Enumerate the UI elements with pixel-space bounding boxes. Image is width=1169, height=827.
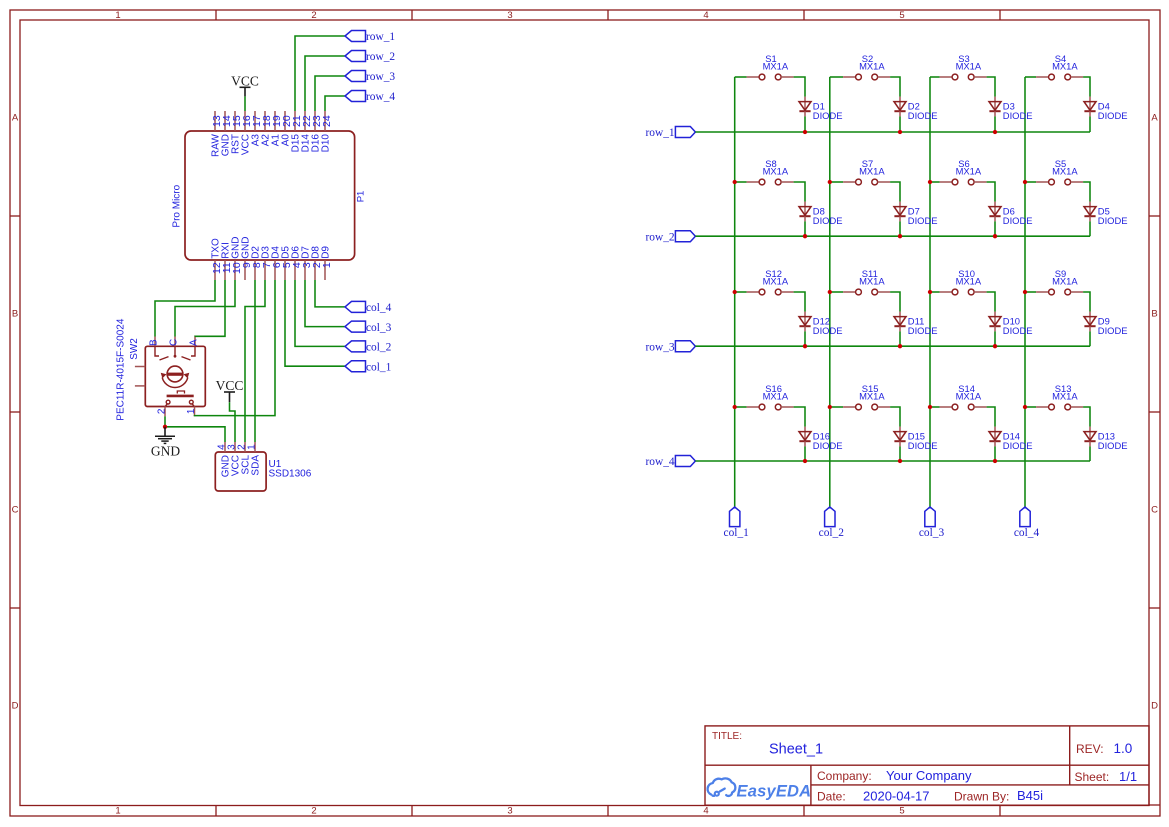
wire pin24 to row_4 flag <box>325 96 345 111</box>
wire VCC to pin16 <box>244 96 246 111</box>
svg-text:col_4: col_4 <box>1014 527 1040 539</box>
wire pin D8 to col_4 flag <box>315 280 345 307</box>
svg-text:DIODE: DIODE <box>1098 440 1128 451</box>
svg-text:MX1A: MX1A <box>763 60 789 71</box>
svg-text:Sheet:: Sheet: <box>1075 770 1110 784</box>
U1 pin 3 (VCC) <box>226 442 241 476</box>
diode D16 <box>799 427 843 451</box>
svg-text:DIODE: DIODE <box>908 110 938 121</box>
wire S5 to D5 <box>1083 182 1090 202</box>
SW2 top pin B <box>149 337 160 347</box>
svg-text:DIODE: DIODE <box>908 215 938 226</box>
P1 bottom pin 6 (D4) <box>270 246 283 280</box>
wire S13 to D13 <box>1083 407 1090 427</box>
svg-text:DIODE: DIODE <box>1098 325 1128 336</box>
wire S10 to D10 <box>987 292 995 312</box>
diode D2 <box>894 97 938 121</box>
wire col_1 vertical bus <box>734 77 736 507</box>
svg-text:2: 2 <box>311 10 316 21</box>
P1 bottom pin 2 (D8) <box>310 246 323 280</box>
wire D10 to row_3 <box>994 331 996 346</box>
junction D16/row_4 <box>803 459 807 463</box>
svg-text:DIODE: DIODE <box>813 110 843 121</box>
svg-text:col_1: col_1 <box>366 361 392 373</box>
svg-text:B: B <box>1151 309 1157 320</box>
svg-text:MX1A: MX1A <box>859 165 885 176</box>
svg-text:MX1A: MX1A <box>859 390 885 401</box>
P1 top pin 15 (RST) <box>230 111 243 154</box>
diode D10 <box>989 312 1033 336</box>
junction col_1/S12 <box>733 290 737 294</box>
junction D10/row_3 <box>993 344 997 348</box>
rotary encoder SW2 body <box>115 318 205 421</box>
diode D9 <box>1084 312 1128 336</box>
wire pin22 to row_2 flag <box>305 56 345 111</box>
junction D11/row_3 <box>898 344 902 348</box>
svg-text:row_2: row_2 <box>366 51 395 63</box>
P1 top pin 16 (VCC) <box>240 111 253 155</box>
svg-text:3: 3 <box>507 10 512 21</box>
svg-text:C: C <box>169 339 180 346</box>
wire D9 to row_3 <box>1089 331 1091 346</box>
diode D8 <box>799 202 843 226</box>
svg-text:A: A <box>1151 113 1158 124</box>
svg-text:MX1A: MX1A <box>859 60 885 71</box>
U1 pin 1 (SDA) <box>246 442 261 476</box>
P1 top pin 20 (A0) <box>280 111 293 146</box>
P1 bottom pin 1 (D9) <box>320 246 333 280</box>
netflag row_3 (top) <box>345 71 395 84</box>
svg-text:1: 1 <box>115 10 120 21</box>
svg-text:row_2: row_2 <box>645 231 674 243</box>
svg-text:MX1A: MX1A <box>1052 60 1078 71</box>
svg-text:DIODE: DIODE <box>1003 325 1033 336</box>
svg-text:D: D <box>12 701 19 712</box>
svg-text:5: 5 <box>899 806 904 817</box>
junction col_1/S16 <box>733 405 737 409</box>
svg-text:EasyEDA: EasyEDA <box>737 783 812 801</box>
wire GND junction to U1 GND pin <box>165 427 225 442</box>
svg-text:A: A <box>12 113 19 124</box>
P1 bottom pin 4 (D6) <box>290 246 303 280</box>
svg-text:D9: D9 <box>320 246 331 259</box>
wire col_2 vertical bus <box>829 77 831 507</box>
svg-text:4: 4 <box>703 10 708 21</box>
wire S2 to D2 <box>890 77 900 97</box>
junction D12/row_3 <box>803 344 807 348</box>
SW2 pushbutton symbol <box>165 391 194 406</box>
P1 top pin 17 (A3) <box>250 111 263 146</box>
svg-text:2020-04-17: 2020-04-17 <box>863 789 930 804</box>
wire pin21 to row_1 flag <box>295 36 345 111</box>
switch S5 MX1A <box>1025 158 1083 185</box>
svg-text:1: 1 <box>321 262 333 268</box>
P1 bottom pin 8 (D2) <box>250 246 263 280</box>
svg-text:C: C <box>1151 505 1158 516</box>
SW2 left pin stub upper <box>135 366 145 368</box>
junction col_3/S14 <box>928 405 932 409</box>
wire SW2 pin2 to GND junction <box>164 416 166 427</box>
diode D15 <box>894 427 938 451</box>
power flag VCC (pin 16) <box>231 73 259 96</box>
wire SW2 pin1 to P1 D4 <box>195 280 276 416</box>
switch S9 MX1A <box>1025 268 1083 295</box>
svg-text:VCC: VCC <box>231 73 259 88</box>
switch S7 MX1A <box>830 158 890 185</box>
svg-text:REV:: REV: <box>1076 742 1104 756</box>
svg-text:TITLE:: TITLE: <box>712 731 742 742</box>
svg-text:1: 1 <box>115 806 120 817</box>
svg-text:MX1A: MX1A <box>859 275 885 286</box>
svg-text:SDA: SDA <box>250 455 261 476</box>
SW2 knob symbol <box>161 366 190 387</box>
junction D2/row_1 <box>898 130 902 134</box>
wire S7 to D7 <box>890 182 900 202</box>
title block frame <box>705 726 1149 805</box>
netflag row_2 (matrix) <box>645 231 695 244</box>
svg-text:row_4: row_4 <box>366 91 395 103</box>
svg-text:A: A <box>189 339 200 346</box>
wire S8 to D8 <box>794 182 805 202</box>
svg-text:MX1A: MX1A <box>956 165 982 176</box>
switch S3 MX1A <box>930 53 987 80</box>
svg-text:col_1: col_1 <box>724 527 750 539</box>
wire P1 D2 to U1 SDA <box>254 280 256 442</box>
diode D12 <box>799 312 843 336</box>
svg-text:DIODE: DIODE <box>813 440 843 451</box>
svg-text:B45i: B45i <box>1017 788 1043 803</box>
switch S15 MX1A <box>830 383 890 410</box>
IC U1 SSD1306 body <box>215 452 311 491</box>
diode D11 <box>894 312 938 336</box>
svg-text:MX1A: MX1A <box>763 275 789 286</box>
junction col_4/S9 <box>1023 290 1027 294</box>
P1 bottom pin 7 (D3) <box>260 246 273 280</box>
wire SW2-A to P1 RXI <box>195 280 225 337</box>
svg-text:row_4: row_4 <box>645 456 674 468</box>
svg-text:MX1A: MX1A <box>763 390 789 401</box>
wire row_1 bus <box>695 131 1090 133</box>
netflag col_1 (left area) <box>345 361 392 374</box>
svg-text:1: 1 <box>246 444 257 450</box>
svg-text:MX1A: MX1A <box>956 390 982 401</box>
svg-text:GND: GND <box>151 443 180 458</box>
svg-text:DIODE: DIODE <box>1098 110 1128 121</box>
wire D15 to row_4 <box>899 446 901 461</box>
junction col_3/S6 <box>928 180 932 184</box>
netflag col_3 (left area) <box>345 321 392 334</box>
svg-text:col_2: col_2 <box>819 527 845 539</box>
svg-text:DIODE: DIODE <box>813 215 843 226</box>
svg-text:DIODE: DIODE <box>908 325 938 336</box>
wire D14 to row_4 <box>994 446 996 461</box>
svg-text:MX1A: MX1A <box>1052 165 1078 176</box>
wire S6 to D6 <box>987 182 995 202</box>
svg-text:col_3: col_3 <box>366 322 392 334</box>
wire D12 to row_3 <box>804 331 806 346</box>
title block texts <box>712 731 1137 804</box>
svg-text:B: B <box>12 309 18 320</box>
switch S8 MX1A <box>735 158 794 185</box>
wire row_4 bus <box>695 460 1090 462</box>
power flag VCC (U1) <box>216 378 244 402</box>
svg-text:row_3: row_3 <box>366 71 395 83</box>
svg-text:1.0: 1.0 <box>1114 741 1133 756</box>
netflag row_4 (matrix) <box>645 456 695 469</box>
P1 bottom pin 3 (D7) <box>300 246 313 280</box>
svg-text:Company:: Company: <box>817 769 872 783</box>
svg-text:3: 3 <box>507 806 512 817</box>
diode D7 <box>894 202 938 226</box>
svg-text:col_4: col_4 <box>366 302 392 314</box>
wire pin D6 to col_2 flag <box>295 280 345 346</box>
P1 top pin 22 (D14) <box>300 111 313 152</box>
wire D6 to row_2 <box>994 221 996 236</box>
svg-text:DIODE: DIODE <box>1003 110 1033 121</box>
junction col_2/S7 <box>828 180 832 184</box>
P1 top pin 23 (D16) <box>310 111 323 152</box>
netflag col_1 (matrix bottom) <box>724 507 750 539</box>
P1 top pin 18 (A2) <box>260 111 273 146</box>
wire pin D5 to col_1 flag <box>285 280 345 366</box>
netflag row_3 (matrix) <box>645 341 695 354</box>
svg-text:1: 1 <box>186 408 197 414</box>
P1 top pin 13 (RAW) <box>210 111 223 157</box>
netflag col_2 (matrix bottom) <box>819 507 845 539</box>
junction col_2/S11 <box>828 290 832 294</box>
svg-text:P1: P1 <box>355 191 366 203</box>
P1 bottom pin 9 (GND) <box>240 237 253 280</box>
svg-text:DIODE: DIODE <box>908 440 938 451</box>
diode D13 <box>1084 427 1128 451</box>
svg-text:MX1A: MX1A <box>1052 275 1078 286</box>
wire pin D7 to col_3 flag <box>305 280 345 327</box>
wire S12 to D12 <box>794 292 805 312</box>
junction col_4/S13 <box>1023 405 1027 409</box>
wire P1 D3 to U1 SCL <box>245 280 265 442</box>
svg-text:row_3: row_3 <box>645 341 674 353</box>
switch S13 MX1A <box>1025 383 1083 410</box>
junction col_3/S10 <box>928 290 932 294</box>
svg-text:row_1: row_1 <box>366 31 395 43</box>
netflag col_2 (left area) <box>345 341 392 354</box>
P1 bottom pin 12 (TXO) <box>210 238 223 280</box>
svg-text:col_2: col_2 <box>366 342 392 354</box>
wire col_3 vertical bus <box>929 77 931 507</box>
wire D5 to row_2 <box>1089 221 1091 236</box>
wire S16 to D16 <box>794 407 805 427</box>
P1 bottom pin 10 (GND) <box>230 237 243 280</box>
switch S2 MX1A <box>830 53 890 80</box>
netflag row_1 (top) <box>345 31 395 44</box>
svg-text:B: B <box>149 339 160 346</box>
wire S4 to D4 <box>1083 77 1090 97</box>
svg-text:DIODE: DIODE <box>1098 215 1128 226</box>
svg-text:D10: D10 <box>320 134 331 153</box>
ground symbol GND <box>151 427 180 459</box>
junction D1/row_1 <box>803 130 807 134</box>
junction D15/row_4 <box>898 459 902 463</box>
svg-text:5: 5 <box>899 10 904 21</box>
wire D7 to row_2 <box>899 221 901 236</box>
SW2 top pin C <box>169 337 180 347</box>
switch S12 MX1A <box>735 268 794 295</box>
svg-text:24: 24 <box>321 115 333 127</box>
wire S14 to D14 <box>987 407 995 427</box>
junction col_4/S5 <box>1023 180 1027 184</box>
svg-text:D: D <box>1151 701 1158 712</box>
switch S14 MX1A <box>930 383 987 410</box>
svg-text:2: 2 <box>157 408 168 414</box>
netflag row_1 (matrix) <box>645 127 695 140</box>
diode D14 <box>989 427 1033 451</box>
P1 bottom pin 11 (RXI) <box>220 242 233 280</box>
switch S11 MX1A <box>830 268 890 295</box>
EasyEDA logo <box>708 778 736 796</box>
svg-text:MX1A: MX1A <box>1052 390 1078 401</box>
SW2 left pin stub lower <box>135 385 145 387</box>
wire D16 to row_4 <box>804 446 806 461</box>
wire S1 to D1 <box>794 77 805 97</box>
junction D14/row_4 <box>993 459 997 463</box>
diode D4 <box>1084 97 1128 121</box>
junction D6/row_2 <box>993 234 997 238</box>
svg-text:2: 2 <box>311 806 316 817</box>
svg-text:MX1A: MX1A <box>956 275 982 286</box>
svg-text:MX1A: MX1A <box>763 165 789 176</box>
wire S3 to D3 <box>987 77 995 97</box>
wire row_3 bus <box>695 345 1090 347</box>
wire D1 to row_1 <box>804 116 806 132</box>
junction col_2/S15 <box>828 405 832 409</box>
svg-text:PEC11R-4015F-S0024: PEC11R-4015F-S0024 <box>115 318 126 421</box>
wire D2 to row_1 <box>899 116 901 132</box>
svg-text:Your Company: Your Company <box>886 768 972 783</box>
junction col_1/S8 <box>733 180 737 184</box>
svg-text:1/1: 1/1 <box>1119 769 1137 784</box>
wire D13 to row_4 <box>1089 446 1091 461</box>
wire SW2-C to P1 GND(10) <box>175 280 235 337</box>
netflag row_2 (top) <box>345 51 395 64</box>
SW2 bottom pin 1 <box>186 406 197 416</box>
wire SW2-B to P1 TXO <box>155 280 215 337</box>
netflag row_4 (top) <box>345 91 395 104</box>
wire D4 to row_1 <box>1089 116 1091 132</box>
junction D3/row_1 <box>993 130 997 134</box>
junction D8/row_2 <box>803 234 807 238</box>
U1 pin 4 (GND) <box>216 442 231 477</box>
P1 top pin 19 (A1) <box>270 111 283 146</box>
SW2 top pin A <box>189 337 200 347</box>
wire row_2 bus <box>695 235 1090 237</box>
junction D7/row_2 <box>898 234 902 238</box>
svg-text:DIODE: DIODE <box>1003 215 1033 226</box>
junction at SW2 pin2 / GND <box>163 425 167 429</box>
switch S16 MX1A <box>735 383 794 410</box>
netflag col_4 (left area) <box>345 301 392 314</box>
wire col_4 vertical bus <box>1024 77 1026 507</box>
diode D3 <box>989 97 1033 121</box>
SW2 bottom pin 2 <box>157 406 168 416</box>
switch S6 MX1A <box>930 158 987 185</box>
netflag col_4 (matrix bottom) <box>1014 507 1040 539</box>
diode D6 <box>989 202 1033 226</box>
svg-text:Date:: Date: <box>817 790 846 804</box>
wire D3 to row_1 <box>994 116 996 132</box>
U1 pin 2 (SCL) <box>236 442 251 474</box>
P1 top pin 24 (D10) <box>320 111 333 152</box>
wire S11 to D11 <box>890 292 900 312</box>
wire VCC to U1 VCC pin <box>230 402 236 442</box>
IC P1 Pro Micro body <box>171 131 366 260</box>
SW2 internal rotary contacts <box>155 346 195 360</box>
P1 top pin 14 (GND) <box>220 111 233 156</box>
switch S1 MX1A <box>735 53 794 80</box>
svg-text:SSD1306: SSD1306 <box>269 469 312 480</box>
wire S15 to D15 <box>890 407 900 427</box>
svg-text:SW2: SW2 <box>129 338 140 360</box>
svg-text:DIODE: DIODE <box>813 325 843 336</box>
diode D1 <box>799 97 843 121</box>
svg-text:4: 4 <box>703 806 708 817</box>
wire D8 to row_2 <box>804 221 806 236</box>
wire pin23 to row_3 flag <box>315 76 345 111</box>
svg-text:Pro Micro: Pro Micro <box>171 184 182 227</box>
netflag col_3 (matrix bottom) <box>919 507 945 539</box>
svg-text:Drawn By:: Drawn By: <box>954 790 1009 804</box>
svg-text:C: C <box>12 505 19 516</box>
diode D5 <box>1084 202 1128 226</box>
svg-text:VCC: VCC <box>216 378 244 393</box>
svg-text:row_1: row_1 <box>645 127 674 139</box>
wire S9 to D9 <box>1083 292 1090 312</box>
svg-text:col_3: col_3 <box>919 527 945 539</box>
svg-text:Sheet_1: Sheet_1 <box>769 741 823 757</box>
wire D11 to row_3 <box>899 331 901 346</box>
P1 bottom pin 5 (D5) <box>280 246 293 280</box>
P1 top pin 21 (D15) <box>290 111 303 152</box>
svg-text:DIODE: DIODE <box>1003 440 1033 451</box>
switch S10 MX1A <box>930 268 987 295</box>
svg-text:MX1A: MX1A <box>956 60 982 71</box>
switch S4 MX1A <box>1025 53 1083 80</box>
